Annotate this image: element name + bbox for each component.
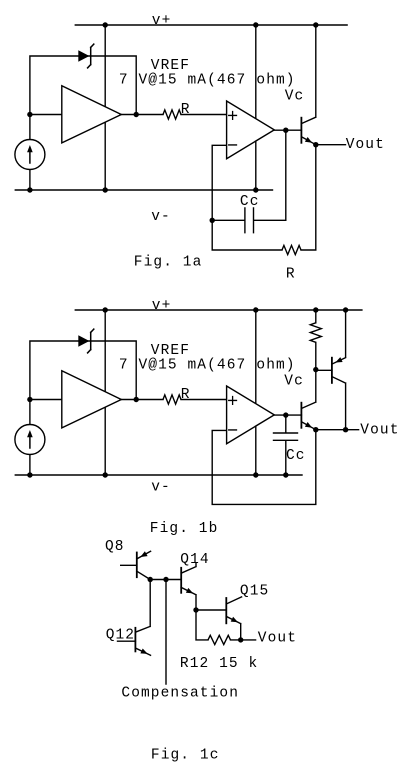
svg-text:R12 15 k: R12 15 k [180, 656, 258, 672]
svg-text:ohm): ohm) [256, 357, 295, 373]
svg-text:Vout: Vout [360, 423, 399, 439]
svg-text:R: R [181, 102, 191, 118]
svg-text:Vc: Vc [284, 374, 304, 390]
svg-text:Compensation: Compensation [121, 686, 239, 702]
svg-text:Vc: Vc [285, 89, 305, 105]
svg-text:7 V@15 mA(467: 7 V@15 mA(467 [119, 357, 246, 373]
svg-text:v+: v+ [152, 13, 172, 29]
svg-text:Q14: Q14 [180, 552, 209, 568]
svg-text:ohm): ohm) [256, 72, 295, 88]
svg-text:v+: v+ [152, 298, 172, 314]
svg-text:Q12: Q12 [106, 628, 135, 644]
svg-text:R: R [286, 267, 296, 283]
svg-text:Q15: Q15 [240, 584, 269, 600]
svg-text:Fig. 1b: Fig. 1b [150, 521, 219, 537]
svg-text:R: R [181, 387, 191, 403]
svg-text:7 V@15 mA(467: 7 V@15 mA(467 [119, 72, 246, 88]
svg-text:v-: v- [151, 479, 171, 495]
svg-text:Vout: Vout [258, 630, 297, 646]
svg-text:Fig. 1c: Fig. 1c [151, 748, 220, 764]
svg-text:Q8: Q8 [105, 539, 125, 555]
svg-text:Cc: Cc [286, 448, 306, 464]
svg-text:Fig. 1a: Fig. 1a [134, 254, 203, 270]
svg-text:Cc: Cc [240, 194, 260, 210]
svg-text:Vout: Vout [346, 137, 385, 153]
svg-text:v-: v- [151, 209, 171, 225]
